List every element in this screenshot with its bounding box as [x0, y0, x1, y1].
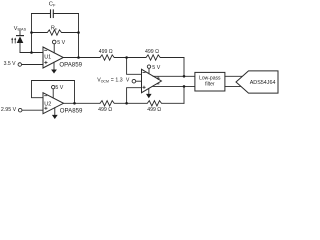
op-amp U2 [43, 93, 64, 114]
capacitor CF [51, 10, 54, 18]
svg-text:OPA859: OPA859 [59, 62, 82, 69]
svg-text:CF: CF [49, 2, 56, 8]
svg-text:OCM: OCM [101, 79, 109, 83]
svg-text:5 V: 5 V [152, 65, 160, 71]
svg-text:RF: RF [51, 26, 58, 32]
svg-text:V: V [126, 77, 130, 83]
wire FDA output minus [152, 85, 195, 87]
svg-text:3.5 V: 3.5 V [4, 61, 16, 67]
svg-text:ADS54J64: ADS54J64 [250, 80, 276, 86]
junction U1 input node [30, 51, 33, 54]
junction U2 feedback tap [73, 102, 76, 105]
FDA plus input mark [143, 86, 145, 88]
wire CF loop top right segment [53, 13, 78, 15]
U2 plus pin mark [45, 107, 47, 109]
photodiode D1 [17, 31, 24, 53]
svg-text:filter: filter [205, 82, 215, 88]
wire FDA bottom input [127, 88, 142, 104]
wire 3.5V to U1 + input [22, 64, 43, 66]
terminal 3.5V [18, 63, 22, 67]
junction FDA bottom input node [125, 102, 128, 105]
junction RF right [77, 31, 80, 34]
wire U1 inverting input [20, 52, 43, 54]
svg-text:U1: U1 [44, 54, 51, 60]
svg-text:499 Ω: 499 Ω [147, 107, 161, 113]
resistor R3 499 bottom series [100, 101, 127, 106]
FDA minus output mark [157, 83, 159, 85]
wire feedback left vertical [31, 14, 33, 53]
low-pass filter block [195, 72, 225, 91]
wire feedback bottom to output node [183, 86, 185, 103]
junction FDA bottom output node [183, 85, 186, 88]
FDA minus input mark [143, 71, 145, 73]
ADC ADS54J64 [236, 71, 278, 93]
junction FDA top input node [125, 56, 128, 59]
wire U2 output [64, 102, 101, 104]
svg-text:5 V: 5 V [55, 85, 63, 91]
op-amp U1 [43, 47, 63, 68]
U1 ground [51, 62, 57, 73]
svg-text:2.95 V: 2.95 V [1, 107, 17, 113]
wire U1 output [63, 57, 100, 59]
FDA ground [146, 88, 152, 98]
svg-text:499 Ω: 499 Ω [99, 49, 113, 55]
svg-text:5 V: 5 V [57, 40, 65, 46]
junction U1 output node [77, 56, 80, 59]
wire U2 feedback loop [32, 81, 75, 104]
wire LPF to ADC minus [225, 85, 241, 87]
U1 plus pin mark [45, 61, 47, 63]
FDA U3 fully differential amplifier [142, 69, 162, 92]
terminal 2.95V [18, 108, 22, 112]
U2 minus pin mark [45, 95, 47, 97]
terminal VOCM [132, 79, 136, 83]
junction RF left [30, 31, 33, 34]
svg-text:499 Ω: 499 Ω [98, 107, 112, 113]
resistor RF [32, 30, 79, 35]
svg-text:U2: U2 [44, 102, 51, 108]
wire 2.95V to U2 + input [22, 109, 43, 111]
light arrows into photodiode [11, 38, 16, 44]
wire LPF to ADC plus [225, 75, 243, 77]
resistor R1 499 [100, 55, 127, 60]
svg-text:OPA859: OPA859 [60, 108, 83, 115]
U1 supply terminal 5V [52, 40, 56, 53]
wire FDA top input [127, 58, 142, 75]
svg-text:VBIAS: VBIAS [14, 26, 27, 32]
wire VOCM [136, 80, 142, 82]
wire feedback right vertical [78, 14, 80, 58]
U1 minus pin mark [45, 49, 47, 51]
wire FDA output plus [153, 75, 195, 77]
junction FDA top output node [183, 75, 186, 78]
U2 ground [52, 108, 58, 119]
wire CF loop top left segment [32, 13, 51, 15]
resistor R2 499 feedback top [127, 55, 184, 60]
svg-text:=: = [111, 77, 114, 83]
FDA supply terminal 5V [147, 65, 150, 74]
resistor R4 499 feedback bottom [127, 101, 184, 106]
svg-text:Low-pass: Low-pass [199, 75, 221, 81]
U2 supply terminal 5V [52, 85, 55, 98]
FDA plus output mark [157, 77, 159, 79]
wire feedback top to output node [183, 58, 185, 77]
svg-text:499 Ω: 499 Ω [145, 49, 159, 55]
svg-text:1.3: 1.3 [115, 77, 122, 83]
